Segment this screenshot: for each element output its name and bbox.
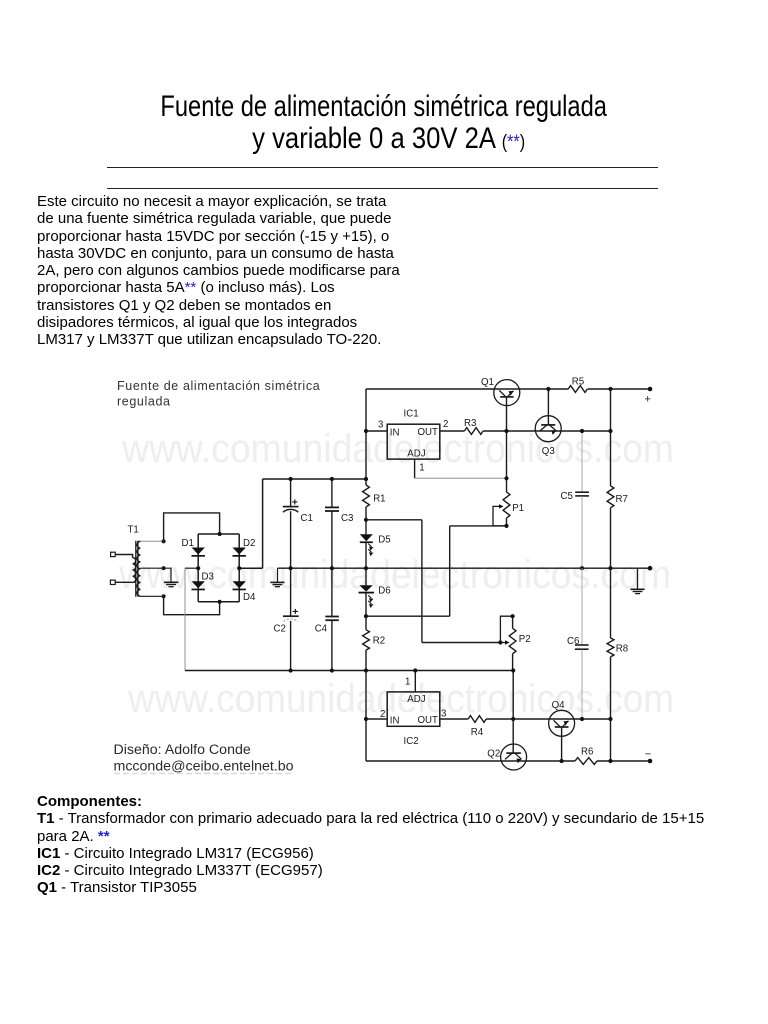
intro paragraph: [37, 193, 437, 349]
wire P1 route horizontal lower: [366, 615, 450, 617]
wire Q3 base drop: [547, 389, 549, 425]
node secondary top tap: [162, 539, 166, 543]
node Q4 emitter on bottom rail: [560, 759, 564, 763]
LED arrows of D6: [368, 595, 371, 598]
svg-text:OUT: OUT: [418, 715, 439, 726]
wire C4 lower lead: [331, 621, 333, 671]
svg-text:D4: D4: [243, 592, 256, 603]
resistor R6: [575, 758, 597, 765]
svg-text:3: 3: [378, 420, 383, 431]
transformer T1 core: [136, 541, 138, 597]
svg-text:D5: D5: [378, 534, 390, 545]
op-amp IC1 box: [387, 424, 440, 459]
wire bridge left junction to gray drop: [185, 567, 198, 569]
resistor R4: [468, 716, 486, 723]
svg-text:+: +: [292, 497, 298, 509]
wire riser to positive rail: [262, 479, 264, 568]
wire right vertical rail top to R7: [610, 389, 612, 486]
wire P2 wiper stub: [500, 642, 506, 644]
svg-text:1: 1: [419, 462, 424, 473]
wire mid rail left ground stub: [277, 568, 279, 582]
capacitor C4: [325, 617, 338, 621]
node top rail right vertical: [608, 387, 612, 391]
svg-text:IC2: IC2: [404, 736, 419, 747]
wire P1 route vertical: [449, 526, 451, 616]
node C3 top on positive rail: [330, 477, 334, 481]
wire Q2 base vertical: [512, 671, 514, 754]
wire Q1 base vertical: [506, 397, 508, 492]
transformer T1 primary winding: [133, 558, 136, 583]
svg-text:C1: C1: [301, 513, 313, 524]
node P2 top: [510, 614, 514, 618]
svg-text:www.comunidadelectronicos.com: www.comunidadelectronicos.com: [127, 677, 674, 721]
svg-text:D6: D6: [378, 585, 390, 596]
resistor R7: [607, 486, 614, 508]
diode D4: [233, 581, 246, 588]
svg-text:C6: C6: [567, 636, 579, 647]
wire raw positive rail: [263, 478, 366, 480]
transistor Q3: [535, 416, 561, 442]
wire R3 to Q3 to right vertical: [483, 430, 610, 432]
wire primary top lead: [115, 555, 132, 558]
svg-text:P2: P2: [519, 634, 531, 645]
node bridge left junction: [196, 566, 200, 570]
node right vertical R7 junction: [608, 429, 612, 433]
capacitor C3: [325, 507, 339, 511]
node bridge right junction: [237, 566, 241, 570]
node adj P1 junction: [504, 476, 508, 480]
svg-text:D2: D2: [243, 538, 255, 549]
node C2 on negative rail: [289, 668, 293, 672]
wire zero volt mid rail: [278, 567, 651, 569]
wire bottom rail: [366, 760, 575, 762]
node D6 cathode: [364, 614, 368, 618]
diode D6: [359, 585, 372, 591]
LED arrows of D5: [368, 544, 371, 547]
wire IC1 pin3 lead: [366, 430, 387, 432]
node C1 top on positive rail: [289, 477, 293, 481]
horizontal rule 1: [107, 167, 658, 168]
wire D6 to R2: [365, 593, 367, 630]
svg-text:+: +: [645, 394, 651, 406]
node R8 bottom on rail: [608, 759, 612, 763]
node bridge top: [218, 532, 222, 536]
svg-text:ADJ: ADJ: [407, 449, 425, 460]
svg-text:R4: R4: [471, 727, 484, 738]
node bridge bottom: [218, 600, 222, 604]
svg-text:+: +: [292, 606, 298, 618]
transistor Q2: [501, 744, 527, 770]
horizontal rule 2: [107, 188, 658, 189]
wire C2 lower lead: [290, 621, 292, 671]
svg-text:IN: IN: [390, 715, 400, 726]
components list: [37, 793, 757, 897]
wire bridge top edge: [198, 533, 239, 535]
node R3 Q1 base junction: [504, 429, 508, 433]
node R7 bottom on mid rail: [608, 566, 612, 570]
wire C1 upper lead: [290, 479, 292, 506]
faint dashes under email: [114, 773, 292, 775]
wire D5 route horizontal upper: [366, 519, 422, 521]
svg-text:Q1: Q1: [481, 377, 494, 388]
capacitor C5: [575, 492, 589, 496]
resistor R3: [464, 428, 483, 435]
svg-text:2: 2: [380, 709, 385, 720]
svg-text:Fuente de alimentación simétri: Fuente de alimentación simétrica: [117, 379, 320, 393]
wire C1 to C2: [290, 511, 292, 616]
wire IC1 pin1 lead: [414, 459, 416, 478]
svg-text:regulada: regulada: [117, 395, 171, 409]
wire bridge right junction to riser: [239, 567, 262, 569]
terminal positive output: [648, 387, 653, 392]
node C4 on negative rail: [330, 668, 334, 672]
wire P1 route horizontal upper: [450, 525, 507, 527]
node IC2 pin1 on negative rail: [413, 668, 417, 672]
wire C5 upper gray lead: [581, 431, 583, 492]
wire secondary bottom tap: [140, 595, 163, 597]
wire secondary bottom drop: [164, 596, 220, 614]
svg-text:mcconde@ceibo.entelnet.bo: mcconde@ceibo.entelnet.bo: [114, 759, 294, 775]
potentiometer P1: [503, 492, 510, 518]
diode D3: [192, 581, 205, 588]
svg-text:Q3: Q3: [542, 446, 555, 457]
wire P2 top lead: [512, 616, 514, 628]
wire R1 to D5: [365, 507, 367, 534]
svg-text:IC1: IC1: [404, 409, 419, 420]
wire top rail left: [366, 388, 568, 390]
svg-text:OUT: OUT: [418, 427, 439, 438]
node R8 junction lower: [608, 717, 612, 721]
svg-text:C2: C2: [274, 623, 286, 634]
op-amp IC2 box: [387, 692, 440, 726]
wire Q4 emitter drop: [561, 727, 563, 761]
wire R8 bottom to rail: [610, 657, 612, 761]
transistor Q1: [494, 380, 520, 406]
wire secondary top tap: [140, 540, 163, 542]
resistor R2: [363, 630, 370, 650]
node C6 bottom junction: [580, 717, 584, 721]
ground at mid rail right: [630, 568, 644, 593]
wire D5 to D6: [365, 541, 367, 585]
node C5 top junction: [580, 429, 584, 433]
node D5 D6 on mid rail: [364, 566, 368, 570]
svg-text:1: 1: [405, 677, 410, 688]
resistor R5: [568, 386, 587, 393]
capacitor C6: [575, 645, 589, 649]
svg-text:P1: P1: [512, 503, 524, 514]
ground at transformer center tap: [164, 582, 178, 586]
wire main vertical top segment: [365, 389, 367, 485]
svg-text:C4: C4: [315, 623, 328, 634]
wire P2 bottom lead: [512, 654, 514, 671]
wire primary bottom lead: [115, 581, 132, 583]
svg-text:Q2: Q2: [487, 749, 500, 760]
wire P1 bottom lead: [506, 518, 508, 526]
wire P2 top loop: [500, 616, 512, 642]
terminal negative output: [648, 759, 653, 764]
wire C3 upper lead: [331, 479, 333, 507]
capacitor C2: [283, 616, 299, 621]
transformer T1 primary terminal squares: [111, 552, 116, 556]
wire gray drop to negative rail: [184, 568, 186, 670]
wire IC2 pin3 lead: [440, 718, 468, 720]
document title: [0, 91, 768, 159]
resistor R1: [363, 485, 370, 507]
wire bridge bottom edge: [198, 601, 239, 603]
wire C6 upper gray lead: [581, 568, 583, 644]
node IC1 pin3 tap: [364, 429, 368, 433]
svg-text:D1: D1: [182, 538, 194, 549]
wire C6 lower gray lead: [581, 650, 583, 719]
svg-text:3: 3: [441, 709, 446, 720]
wire C3 to C4: [331, 512, 333, 616]
svg-text:R6: R6: [581, 746, 593, 757]
wire R4 to Q4 to R8 vertical: [486, 718, 610, 720]
wire D5 route vertical: [421, 520, 423, 643]
svg-text:R8: R8: [616, 643, 628, 654]
transformer T1 secondary winding: [137, 541, 140, 596]
node C3 C4 on mid rail: [330, 566, 334, 570]
terminal zero volt output: [648, 566, 653, 571]
node IC2 pin2 tap: [364, 717, 368, 721]
wire IC2 pin1 lead: [414, 671, 416, 692]
transistor Q4: [549, 710, 575, 736]
node R2 on negative rail: [364, 668, 368, 672]
node D5 anode: [364, 518, 368, 522]
svg-text:−: −: [645, 749, 651, 761]
svg-text:D3: D3: [202, 572, 214, 583]
wire IC1 pin2 lead: [440, 430, 465, 432]
resistor R8: [607, 638, 614, 657]
wire top rail right: [588, 388, 651, 390]
svg-text:C5: C5: [561, 491, 573, 502]
diode D5: [360, 534, 373, 541]
node secondary bottom tap: [162, 594, 166, 598]
wire P1 wiper loop: [493, 506, 507, 526]
wire C5 lower gray lead: [581, 496, 583, 568]
diode D2: [233, 548, 246, 555]
wire bridge right branch: [238, 534, 240, 602]
wire D5 route horizontal lower to P2 wiper: [422, 642, 501, 644]
wire secondary top riser: [164, 513, 220, 541]
node C1 C2 on mid rail: [289, 566, 293, 570]
node R1 top on positive rail: [364, 477, 368, 481]
capacitor C1: [283, 507, 299, 513]
wire secondary center tap: [140, 568, 171, 582]
svg-text:Diseño: Adolfo Conde: Diseño: Adolfo Conde: [114, 742, 251, 758]
node C5 bottom on mid rail: [580, 566, 584, 570]
node P1 bottom junction: [504, 524, 508, 528]
potentiometer P2: [509, 628, 516, 653]
P2 wiper arrowhead: [505, 640, 510, 644]
node P2 wiper junction: [498, 640, 502, 644]
svg-text:Q4: Q4: [552, 700, 566, 711]
svg-text:R5: R5: [572, 376, 584, 387]
wire R7 to mid rail: [610, 508, 612, 568]
node secondary center tap: [162, 566, 166, 570]
wire negative rail: [185, 670, 513, 672]
diode D1: [192, 548, 205, 555]
svg-text:R2: R2: [373, 635, 385, 646]
svg-text:2: 2: [443, 419, 448, 430]
svg-text:ADJ: ADJ: [407, 694, 425, 705]
svg-text:IN: IN: [390, 428, 400, 439]
svg-text:C3: C3: [341, 513, 353, 524]
wire bottom rail right: [597, 760, 650, 762]
svg-text:R3: R3: [464, 418, 476, 429]
wire IC1 adj gray link: [415, 477, 507, 479]
svg-text:T1: T1: [128, 525, 139, 536]
node top rail Q3 tap: [546, 387, 550, 391]
svg-text:R1: R1: [373, 494, 385, 505]
wire R2 to bottom rail corner: [365, 650, 367, 761]
node P2 bottom on negative rail: [511, 668, 515, 672]
node R4 Q2 base junction: [511, 717, 515, 721]
svg-text:R7: R7: [616, 494, 628, 505]
wire bridge left branch: [197, 534, 199, 602]
P1 wiper arrowhead: [499, 504, 504, 508]
ground at mid rail left: [270, 582, 284, 586]
wire R8 top from mid rail: [610, 568, 612, 638]
wire IC2 pin2 lead: [366, 718, 387, 720]
